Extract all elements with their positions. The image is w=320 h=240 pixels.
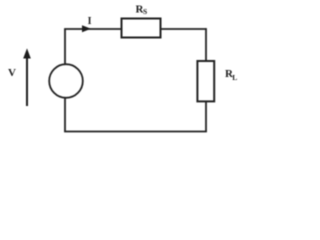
svg-text:I: I: [88, 16, 92, 27]
svg-text:S: S: [143, 7, 147, 16]
wire top horizontal right: [161, 28, 207, 30]
wire right vertical lower: [205, 101, 207, 131]
svg-text:V: V: [8, 67, 16, 79]
wire top horizontal left: [64, 28, 121, 30]
resistor RS: [122, 19, 161, 38]
wire right vertical upper: [205, 28, 207, 61]
wire left vertical upper: [64, 29, 66, 65]
voltage source V: [49, 64, 83, 98]
wire bottom horizontal: [64, 131, 207, 133]
svg-text:L: L: [232, 73, 237, 82]
current arrow I: [82, 25, 91, 32]
voltage arrow: [23, 48, 31, 106]
resistor RL: [197, 61, 214, 101]
wire left vertical lower: [64, 98, 66, 132]
